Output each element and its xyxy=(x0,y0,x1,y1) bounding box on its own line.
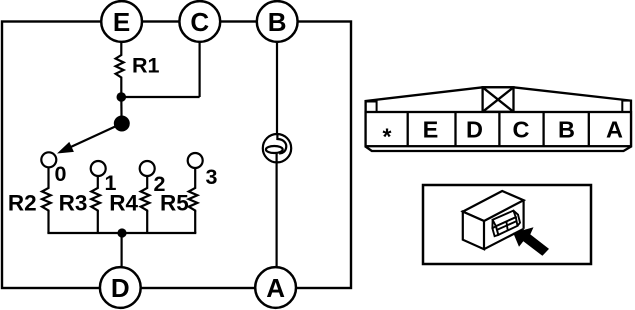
svg-text:R1: R1 xyxy=(132,54,160,78)
switch contact 2 xyxy=(140,161,155,176)
wire junction to C column xyxy=(121,96,199,98)
svg-text:E: E xyxy=(423,117,439,143)
wire B stub down to lamp xyxy=(276,43,278,138)
resistor R4 xyxy=(141,188,150,212)
circuit outer box / wire loop xyxy=(2,22,351,289)
lamp L1 xyxy=(263,133,291,163)
svg-text:C: C xyxy=(513,117,530,143)
switch pivot dot xyxy=(114,116,130,132)
wire R3 to bus xyxy=(97,211,99,233)
wire R5 to bus xyxy=(194,211,196,233)
svg-text:R2: R2 xyxy=(8,191,37,216)
wire R4 to bus xyxy=(146,211,148,233)
resistor R2 xyxy=(42,188,51,212)
resistor R5 xyxy=(189,188,198,212)
junction dot on bus xyxy=(117,228,126,237)
resistor R3 xyxy=(91,188,100,212)
wire contact 1 to R3 xyxy=(97,176,99,188)
svg-text:*: * xyxy=(383,124,392,150)
wire junction to switch pivot xyxy=(120,97,122,123)
node A xyxy=(255,267,296,308)
arrow pointing at relay connector xyxy=(513,227,549,256)
switch contact 1 xyxy=(91,161,106,176)
junction dot below R1 xyxy=(117,92,127,102)
wire C stub down xyxy=(199,42,201,97)
svg-text:B: B xyxy=(558,117,575,143)
node E xyxy=(101,1,142,42)
svg-text:0: 0 xyxy=(55,162,67,186)
svg-text:3: 3 xyxy=(206,165,218,189)
connector keying box with X xyxy=(483,87,514,112)
bus wire joining resistor bottoms xyxy=(47,232,196,234)
node B xyxy=(257,1,298,42)
wire R2 to bus xyxy=(47,211,49,233)
switch wiper arrow to contact 0 xyxy=(68,124,122,149)
svg-text:C: C xyxy=(190,7,209,37)
connector right tab xyxy=(622,101,631,112)
svg-text:D: D xyxy=(111,273,130,303)
pin row cells xyxy=(366,112,631,146)
relay body (isometric) xyxy=(463,191,524,249)
wire contact 3 to R5 xyxy=(194,168,196,188)
wire E stub down xyxy=(120,42,122,55)
connector left tab xyxy=(366,102,377,113)
svg-text:R3: R3 xyxy=(59,191,88,216)
svg-text:R4: R4 xyxy=(109,191,138,216)
relay connector socket xyxy=(491,211,520,237)
relay location box xyxy=(423,185,591,264)
svg-text:A: A xyxy=(266,273,285,303)
wire contact 0 to R2 xyxy=(47,167,49,188)
wire contact 2 to R4 xyxy=(146,176,148,188)
svg-text:A: A xyxy=(606,117,623,143)
svg-text:R5: R5 xyxy=(160,191,189,216)
wire bus to node D xyxy=(120,233,122,267)
wire R1 bottom to junction xyxy=(120,79,122,98)
connector pinout housing outline xyxy=(366,87,631,151)
switch contact 3 xyxy=(188,153,203,168)
node D xyxy=(100,267,141,308)
svg-text:D: D xyxy=(466,117,483,143)
resistor R1 xyxy=(116,55,124,79)
node C xyxy=(179,1,220,42)
svg-text:B: B xyxy=(268,7,287,37)
switch contact 0 xyxy=(41,152,56,167)
wire lamp to node A xyxy=(276,163,278,268)
svg-text:E: E xyxy=(113,7,130,37)
